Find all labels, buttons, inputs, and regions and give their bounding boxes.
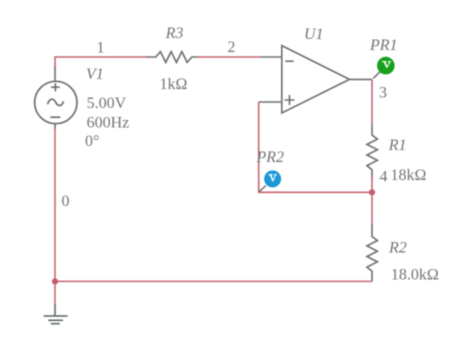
svg-text:600Hz: 600Hz: [87, 115, 130, 132]
svg-text:4: 4: [380, 169, 388, 186]
svg-text:0: 0: [62, 193, 70, 210]
svg-text:U1: U1: [304, 26, 324, 43]
svg-text:V1: V1: [86, 66, 104, 83]
svg-text:18.0kΩ: 18.0kΩ: [391, 267, 439, 284]
svg-text:R3: R3: [165, 25, 184, 42]
svg-text:2: 2: [227, 39, 235, 56]
svg-text:PR2: PR2: [256, 149, 285, 166]
svg-text:R1: R1: [388, 137, 407, 154]
svg-text:PR1: PR1: [369, 37, 398, 54]
svg-text:1: 1: [97, 40, 105, 57]
svg-text:5.00V: 5.00V: [87, 95, 127, 112]
svg-text:0°: 0°: [85, 133, 99, 150]
svg-text:18kΩ: 18kΩ: [391, 167, 427, 184]
svg-text:R2: R2: [388, 240, 407, 257]
svg-text:1kΩ: 1kΩ: [160, 76, 188, 93]
svg-text:3: 3: [379, 84, 387, 101]
